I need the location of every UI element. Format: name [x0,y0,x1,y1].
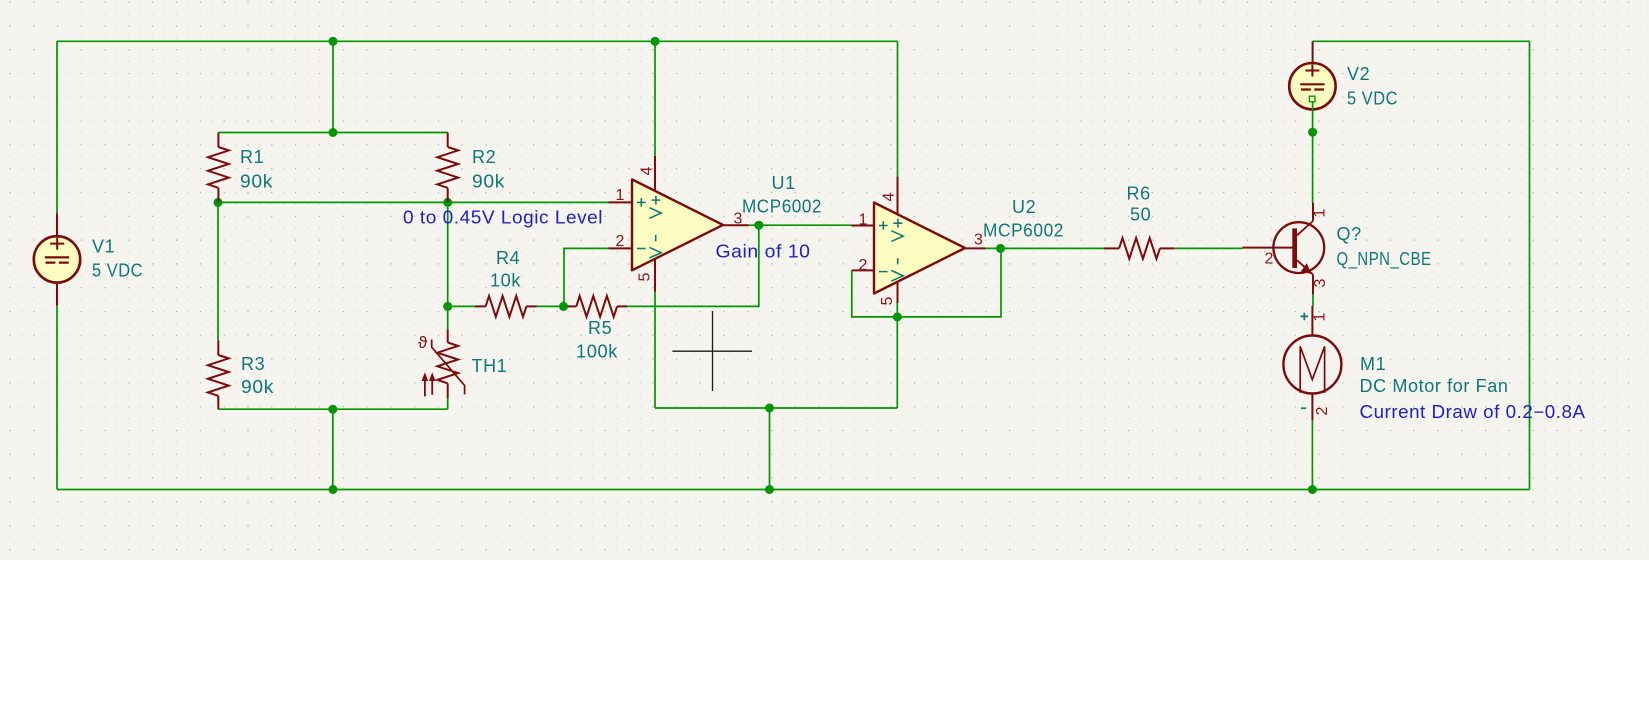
transistor Q? [1243,203,1330,295]
svg-text:100k: 100k [576,342,618,362]
junction top rail U1 pin4 [651,37,660,46]
svg-text:0 to 0.45V Logic Level: 0 to 0.45V Logic Level [403,207,603,227]
label R6 [1127,184,1152,225]
wire R4-R5 link [537,305,568,307]
label U1 [742,173,822,217]
resistor R3 [208,340,229,409]
svg-text:1: 1 [1312,209,1329,218]
svg-text:R1: R1 [240,147,264,167]
svg-text:50: 50 [1130,205,1151,225]
op-amp U2 [852,177,986,306]
svg-text:DC Motor for Fan: DC Motor for Fan [1360,376,1509,396]
wire Q emitter to motor [1312,294,1314,306]
wire pin1 row (bridge output) [218,201,609,203]
wire U2 pin5 down [896,303,898,408]
svg-text:MCP6002: MCP6002 [983,221,1064,241]
resistor R4 [475,296,537,317]
svg-text:1: 1 [616,187,625,204]
wire R2 leg down to TH1 [447,202,449,329]
op-amp U1 [609,156,749,292]
schematic canvas background [0,0,1649,560]
voltage source V2 [1289,41,1335,110]
svg-text:U2: U2 [1012,197,1036,217]
label R5 [576,318,618,362]
svg-text:90k: 90k [241,377,274,397]
wire riser x333 top [332,41,334,132]
svg-text:V1: V1 [92,237,115,257]
svg-text:2: 2 [616,233,625,250]
svg-text:TH1: TH1 [472,356,508,376]
svg-text:5 VDC: 5 VDC [92,261,143,281]
svg-text:Q?: Q? [1337,224,1362,244]
junction top rail x333 [329,37,338,46]
wire left rail upper [56,41,58,213]
wire U2 feedback loop [852,248,1001,317]
svg-text:5 VDC: 5 VDC [1347,88,1398,108]
label M1 [1360,354,1509,396]
junction bottom link x333 [328,405,337,414]
svg-text:U1: U1 [772,173,796,193]
svg-text:R4: R4 [496,248,520,268]
svg-text:1: 1 [1312,313,1329,322]
wire R6 to Q base [1174,247,1242,249]
wire motor to bottom rail [1311,420,1313,490]
wire U1 feedback (R5 to output) [627,225,759,306]
svg-text:5: 5 [879,297,896,306]
label R3 [241,354,274,397]
svg-text:Gain of 10: Gain of 10 [716,242,811,262]
wire mid riser to bottom rail [769,408,771,490]
wire U2 pin4 supply drop [897,41,899,176]
junction sub-rail mid [765,404,774,413]
junction below V2 [1308,128,1317,137]
label R1 [240,147,273,192]
wire mid bottom sub-rail [655,407,897,409]
svg-text:1: 1 [859,212,868,229]
wire U1 pin5 down [654,292,656,409]
svg-text:90k: 90k [240,171,273,191]
junction R2 bottom [443,198,452,207]
wire U2 output to R6 [986,247,1104,249]
svg-text:4: 4 [881,193,898,202]
wire R4 left link [448,305,475,307]
wire R3-TH1 bottom link [218,408,447,410]
wire top rail left [57,40,898,42]
junction U2 pin5 feedback [893,312,902,321]
svg-text:10k: 10k [490,271,521,291]
label V2 [1347,64,1398,109]
graphic crosshair [672,311,752,391]
junction R4 left node [443,302,452,311]
svg-text:M1: M1 [1360,354,1386,374]
svg-text:3: 3 [1312,279,1329,288]
svg-text:Current Draw of 0.2−0.8A: Current Draw of 0.2−0.8A [1360,402,1586,422]
svg-text:5: 5 [637,273,654,282]
label R4 [490,248,521,291]
svg-text:R3: R3 [241,354,265,374]
wire right rail [1529,41,1531,489]
wire U1 pin4 supply drop [654,41,656,156]
junction U1 output node [754,221,763,230]
junction R4-R5 node [559,302,568,311]
pin name M1-minus [1301,407,1306,409]
junction bottom rail x333 [329,485,338,494]
svg-text:2: 2 [1265,250,1274,267]
resistor R5 [568,296,628,317]
wire TH1 bottom stub [447,398,449,409]
svg-text:R6: R6 [1127,184,1151,204]
pin name M1-plus [1301,313,1309,321]
label U2 [983,197,1064,241]
resistor R2 [437,133,458,203]
svg-text:R2: R2 [472,147,496,167]
label R2 [472,147,505,192]
wire U1 output to U2 input [749,224,852,226]
label V1 [92,237,143,281]
svg-text:R5: R5 [588,318,612,338]
svg-text:90k: 90k [472,171,505,191]
wire R1-R2 top link [218,132,447,134]
svg-text:V2: V2 [1347,64,1370,84]
wire left rail lower [56,306,58,490]
wire top rail right (V2 loop) [1313,40,1530,42]
motor M1 [1283,306,1341,420]
svg-text:2: 2 [1314,407,1331,416]
junction U2 output node [996,244,1005,253]
label Q? [1337,224,1432,270]
wire bottom rail [57,489,1530,491]
junction R1 bottom [214,198,223,207]
svg-text:ϑ: ϑ [418,333,428,352]
resistor R1 [208,133,229,203]
wire R1 leg down [217,202,219,340]
svg-text:2: 2 [859,257,868,274]
junction bottom rail motor [1308,485,1317,494]
wire V2 to Q collector [1312,102,1314,203]
svg-text:3: 3 [974,232,983,249]
voltage source V1 [34,214,80,306]
junction bottom rail x769 [765,485,774,494]
wire riser x333 bottom [332,409,334,489]
svg-text:MCP6002: MCP6002 [742,197,822,217]
thermistor TH1 [422,329,464,398]
svg-text:Q_NPN_CBE: Q_NPN_CBE [1337,249,1432,270]
svg-text:4: 4 [639,167,656,176]
junction R1R2 link x333 [329,128,338,137]
wire inverting input riser [564,248,609,306]
resistor R6 [1104,238,1175,259]
